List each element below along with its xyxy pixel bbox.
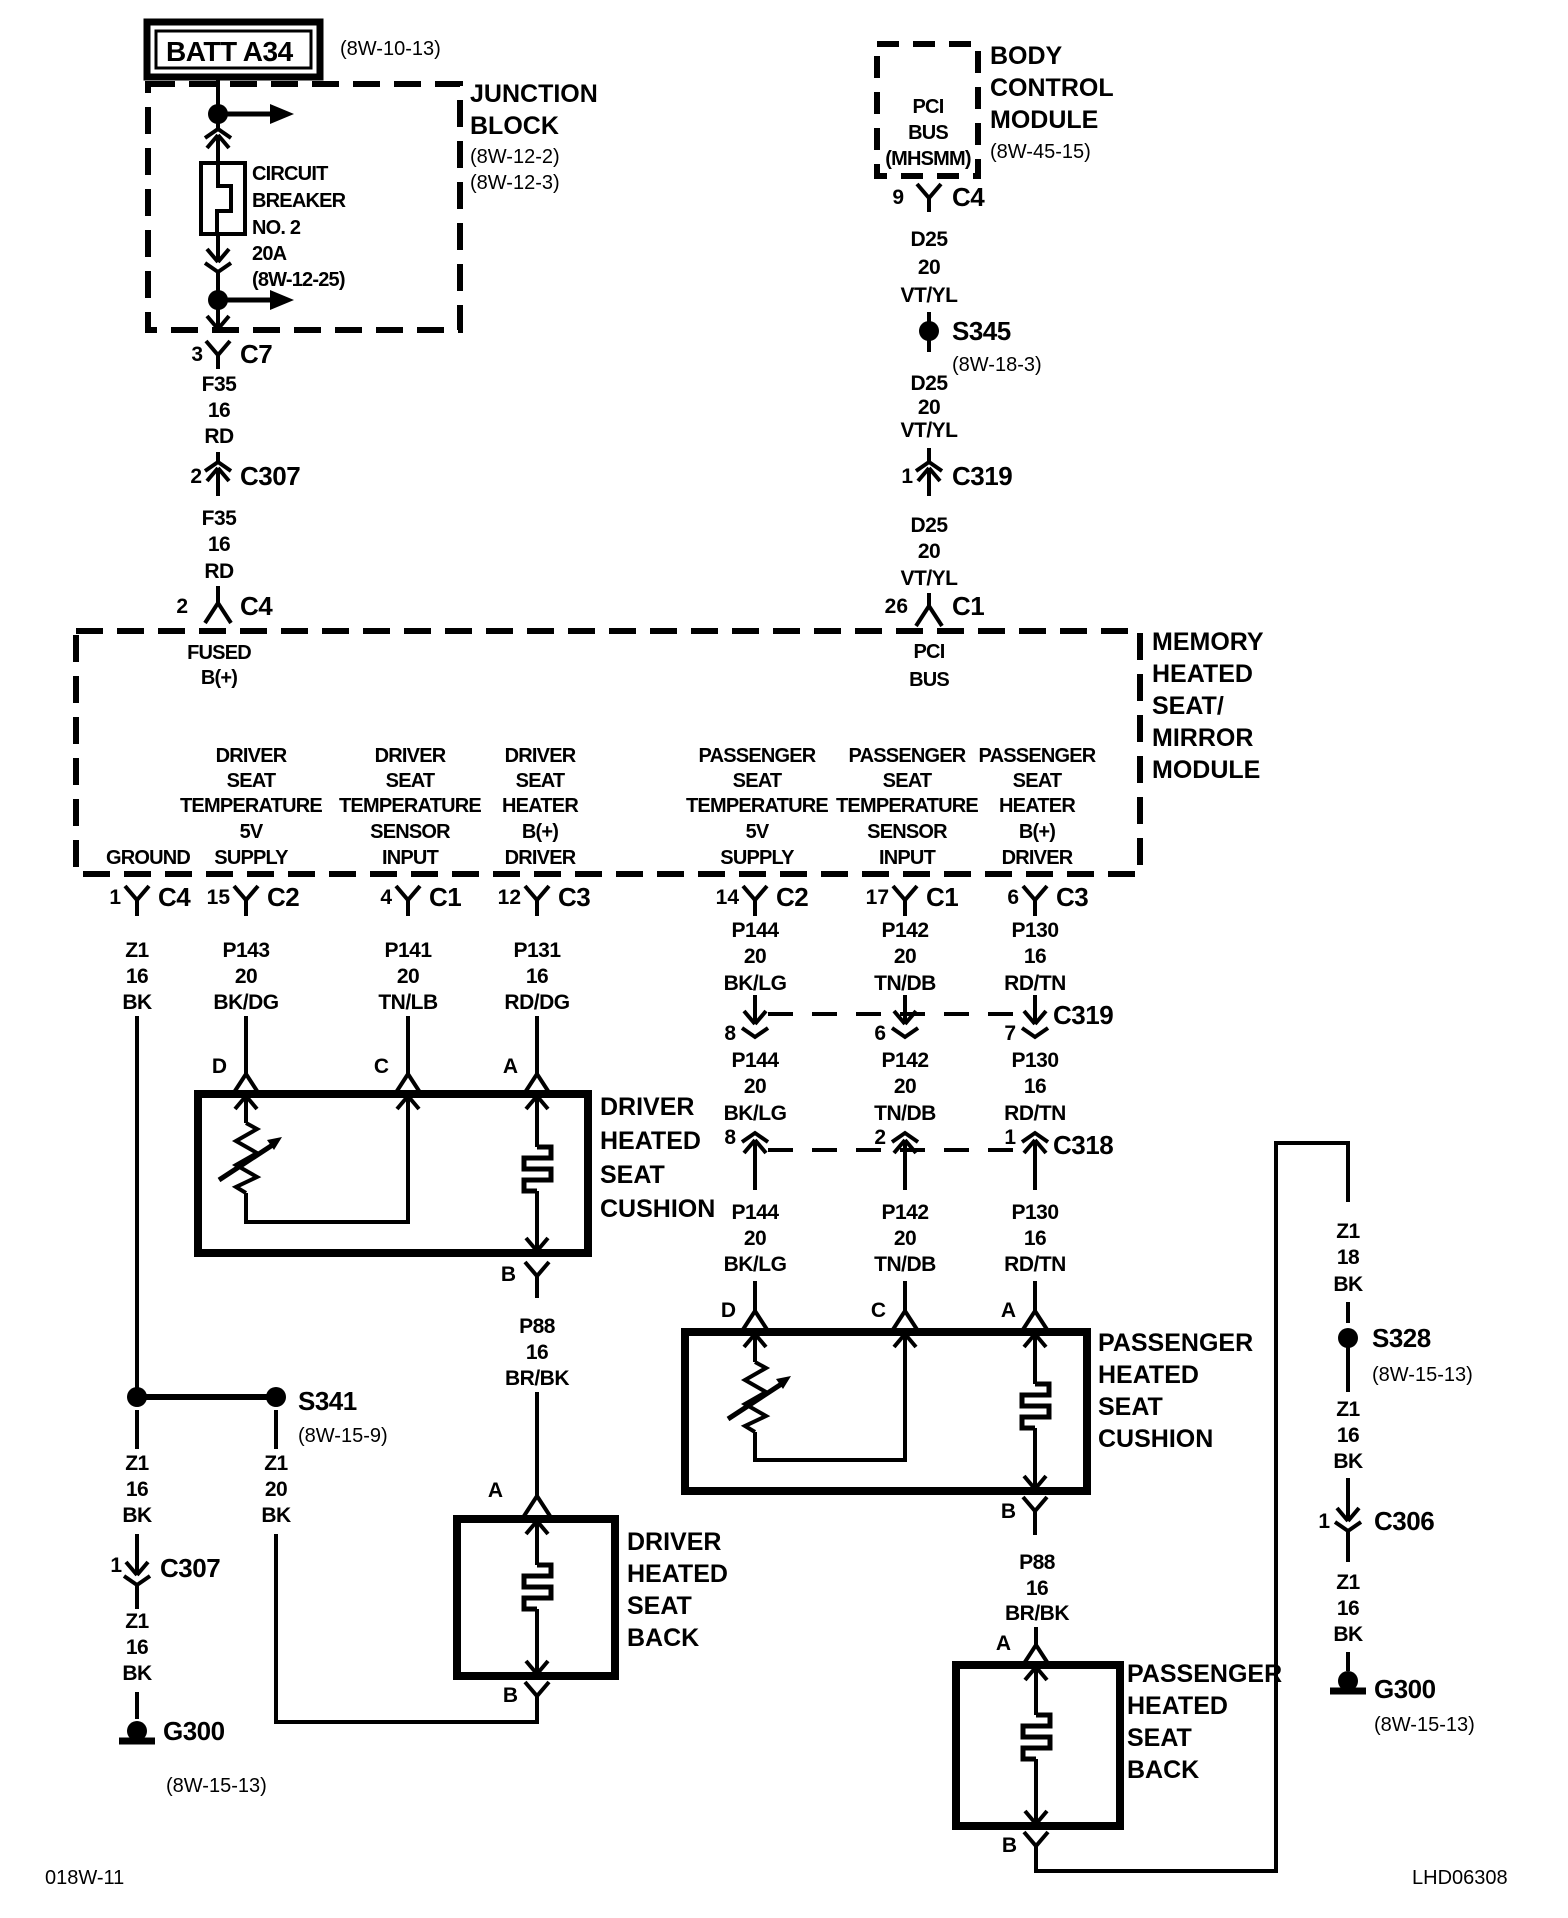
wire P142 20 TN/DB (1) <box>874 919 936 995</box>
svg-text:HEATED: HEATED <box>1152 660 1253 688</box>
svg-text:20: 20 <box>744 1075 766 1098</box>
svg-text:C1: C1 <box>429 882 461 912</box>
cushion pin C socket <box>395 1056 421 1094</box>
svg-text:2: 2 <box>190 465 202 488</box>
wire Z1 18 BK (right) <box>1333 1220 1363 1296</box>
passenger heated seat cushion label <box>1098 1329 1253 1453</box>
svg-text:S345: S345 <box>952 316 1011 346</box>
svg-text:Z1: Z1 <box>125 1610 149 1633</box>
wire to C307 <box>216 452 220 462</box>
wire to module C4 <box>216 586 220 603</box>
svg-text:20: 20 <box>744 1227 766 1250</box>
svg-text:C1: C1 <box>926 882 958 912</box>
connector C4 socket at BCM (pin 9) <box>917 184 941 212</box>
svg-text:F35: F35 <box>202 373 238 396</box>
splice S328 <box>1338 1328 1358 1348</box>
svg-text:B(+): B(+) <box>522 821 558 843</box>
svg-text:Z1: Z1 <box>1336 1571 1360 1594</box>
svg-text:CUSHION: CUSHION <box>600 1195 715 1223</box>
svg-text:DRIVER: DRIVER <box>1002 847 1074 869</box>
junction block box <box>148 84 460 330</box>
svg-text:C7: C7 <box>240 339 272 369</box>
connector C319 pin 7 chevrons <box>1022 1011 1048 1037</box>
svg-text:P88: P88 <box>1019 1551 1056 1574</box>
cushion pin A socket <box>524 1056 550 1094</box>
svg-text:SEAT: SEAT <box>1013 770 1062 792</box>
svg-text:BK/LG: BK/LG <box>724 972 787 995</box>
passenger back pin B socket <box>1024 1832 1048 1858</box>
svg-text:20A: 20A <box>252 243 287 265</box>
wire to module C1 <box>927 593 931 606</box>
memory heated seat/mirror module box <box>76 631 1140 874</box>
svg-text:15: 15 <box>207 886 231 909</box>
male pin A inside passenger back <box>1025 1667 1047 1680</box>
svg-text:1: 1 <box>901 465 913 488</box>
svg-text:2: 2 <box>874 1126 886 1149</box>
wire Z1 20 BK (S341 branch) <box>261 1452 291 1527</box>
svg-text:RD: RD <box>204 425 234 448</box>
male pin A inside cushion <box>526 1096 548 1109</box>
svg-text:C319: C319 <box>952 461 1012 491</box>
feed arrow right (bottom) <box>226 290 294 310</box>
svg-text:9: 9 <box>892 186 904 209</box>
wire pin D to passenger thermistor <box>753 1334 757 1362</box>
breaker lower terminal chevrons <box>205 234 231 296</box>
svg-text:TEMPERATURE: TEMPERATURE <box>339 795 481 817</box>
wire D25 20 VT/YL (upper) <box>900 228 958 307</box>
svg-text:16: 16 <box>526 965 548 988</box>
connector C319 pin 8 chevrons <box>742 1011 768 1037</box>
driver seat back pin A socket <box>524 1478 550 1516</box>
wire to S345 <box>927 312 931 322</box>
svg-text:SEAT: SEAT <box>1127 1724 1192 1752</box>
svg-text:P130: P130 <box>1011 1049 1058 1072</box>
passenger cushion pin D socket <box>742 1293 768 1331</box>
svg-text:16: 16 <box>208 399 230 422</box>
wire junction to S341 <box>146 1394 267 1400</box>
svg-text:BK: BK <box>1333 1623 1363 1646</box>
driver cushion heater element <box>524 1147 551 1191</box>
svg-text:(MHSMM): (MHSMM) <box>885 148 971 170</box>
junction dot J1 <box>208 104 228 124</box>
svg-text:16: 16 <box>1024 1227 1046 1250</box>
wire back heater to pin B <box>535 1609 539 1673</box>
svg-text:S328: S328 <box>1372 1323 1431 1353</box>
svg-text:MODULE: MODULE <box>990 106 1098 134</box>
wire D25 20 VT/YL (middle) <box>900 372 958 442</box>
svg-text:HEATED: HEATED <box>1127 1692 1228 1720</box>
circuit breaker CB2 box <box>201 163 245 234</box>
svg-text:PASSENGER: PASSENGER <box>1098 1329 1253 1357</box>
svg-text:FUSED: FUSED <box>187 642 251 664</box>
svg-text:TN/DB: TN/DB <box>874 1253 936 1276</box>
wire pin A to heater element <box>535 1096 539 1147</box>
svg-text:BK/LG: BK/LG <box>724 1102 787 1125</box>
svg-text:P144: P144 <box>731 1049 779 1072</box>
svg-text:1: 1 <box>109 886 121 909</box>
svg-text:A: A <box>488 1479 503 1502</box>
wire to C307 ground <box>135 1534 139 1550</box>
svg-text:16: 16 <box>1024 1075 1046 1098</box>
splice S341 <box>266 1387 286 1407</box>
svg-text:BACK: BACK <box>627 1624 699 1652</box>
svg-text:(8W-18-3): (8W-18-3) <box>952 354 1042 376</box>
svg-text:C3: C3 <box>1056 882 1088 912</box>
body control module label <box>990 42 1114 163</box>
wire passenger back heater to pin B <box>1034 1759 1038 1823</box>
svg-text:5V: 5V <box>240 821 264 843</box>
svg-text:C: C <box>374 1055 389 1078</box>
svg-text:SENSOR: SENSOR <box>370 821 451 843</box>
passenger back pin A socket <box>1023 1627 1049 1665</box>
svg-text:RD/TN: RD/TN <box>1004 1253 1066 1276</box>
passenger cushion pin A socket <box>1022 1293 1048 1331</box>
svg-text:B: B <box>1002 1834 1017 1857</box>
wire passenger back B to right riser <box>1036 1143 1348 1871</box>
ground G300 (left) <box>119 1721 155 1741</box>
svg-text:SENSOR: SENSOR <box>867 821 948 843</box>
svg-text:16: 16 <box>1337 1597 1359 1620</box>
svg-text:C3: C3 <box>558 882 590 912</box>
svg-text:1: 1 <box>1004 1126 1016 1149</box>
svg-text:16: 16 <box>526 1341 548 1364</box>
svg-text:16: 16 <box>126 1478 148 1501</box>
svg-text:JUNCTION: JUNCTION <box>470 80 598 108</box>
svg-text:P142: P142 <box>881 919 928 942</box>
svg-text:C319: C319 <box>1053 1000 1113 1030</box>
wire pin A to passenger back heater <box>1034 1667 1038 1715</box>
svg-text:1: 1 <box>1318 1510 1330 1533</box>
male pin B inside passenger back <box>1025 1811 1047 1824</box>
svg-text:2: 2 <box>176 595 188 618</box>
wire into right G300 <box>1346 1652 1350 1671</box>
driver back pin B socket <box>525 1682 549 1724</box>
svg-text:INPUT: INPUT <box>382 847 439 869</box>
svg-text:BK: BK <box>122 1504 152 1527</box>
svg-text:A: A <box>1001 1299 1016 1322</box>
svg-text:C2: C2 <box>267 882 299 912</box>
connector C307 (feed) <box>205 462 231 496</box>
svg-text:HEATER: HEATER <box>999 795 1076 817</box>
svg-text:P141: P141 <box>384 939 432 962</box>
connector C319 pin 6 chevrons <box>892 1011 918 1037</box>
svg-text:16: 16 <box>1337 1424 1359 1447</box>
svg-text:MODULE: MODULE <box>1152 756 1260 784</box>
svg-text:Z1: Z1 <box>125 1452 149 1475</box>
svg-text:DRIVER: DRIVER <box>505 847 577 869</box>
svg-text:PASSENGER: PASSENGER <box>1127 1660 1282 1688</box>
circuit breaker CB2 element <box>217 163 231 234</box>
module pin label HEATER column x=540 <box>502 745 579 869</box>
svg-text:RD/TN: RD/TN <box>1004 972 1066 995</box>
svg-text:16: 16 <box>208 533 230 556</box>
svg-text:(8W-12-3): (8W-12-3) <box>470 172 560 194</box>
svg-text:LHD06308: LHD06308 <box>1412 1867 1508 1889</box>
svg-text:HEATER: HEATER <box>502 795 579 817</box>
male pin B inside cushion <box>526 1238 548 1251</box>
module name label <box>1152 628 1264 784</box>
svg-text:Z1: Z1 <box>1336 1220 1360 1243</box>
svg-text:G300: G300 <box>163 1716 225 1746</box>
male pin A inside driver back <box>526 1521 548 1534</box>
svg-text:D: D <box>721 1299 736 1322</box>
module pin label TEMPERATURE column x=251 <box>180 745 322 869</box>
module pin 6 connector C3 socket <box>1023 886 1047 916</box>
svg-text:4: 4 <box>380 886 392 909</box>
svg-text:(8W-15-13): (8W-15-13) <box>1372 1364 1473 1386</box>
dashed link line C318 <box>768 1148 1022 1152</box>
svg-text:3: 3 <box>191 343 203 366</box>
svg-text:(8W-12-2): (8W-12-2) <box>470 146 560 168</box>
wire breaker to J2 <box>216 276 220 291</box>
wire pin A to passenger cushion heater <box>1033 1334 1037 1384</box>
svg-text:A: A <box>996 1632 1011 1655</box>
svg-text:SUPPLY: SUPPLY <box>720 847 795 869</box>
module pin 14 connector C2 socket <box>743 886 767 916</box>
svg-text:C4: C4 <box>158 882 191 912</box>
svg-text:BREAKER: BREAKER <box>252 190 347 212</box>
driver back heater element <box>524 1565 551 1609</box>
svg-text:PCI: PCI <box>914 641 945 663</box>
svg-text:5V: 5V <box>746 821 770 843</box>
svg-text:CUSHION: CUSHION <box>1098 1425 1213 1453</box>
svg-text:INPUT: INPUT <box>879 847 936 869</box>
svg-text:SEAT: SEAT <box>733 770 782 792</box>
svg-text:TN/DB: TN/DB <box>874 972 936 995</box>
connector C318 pin 1 chevrons <box>1022 1133 1048 1190</box>
svg-text:GROUND: GROUND <box>106 847 190 869</box>
wire F35 16 RD (upper) <box>202 373 238 448</box>
wire Z1 16 BK (right, to C306) <box>1333 1398 1363 1473</box>
driver heated seat back label <box>627 1528 728 1652</box>
svg-text:P144: P144 <box>731 1201 779 1224</box>
svg-text:(8W-15-13): (8W-15-13) <box>166 1775 267 1797</box>
svg-text:BK/DG: BK/DG <box>213 991 278 1014</box>
svg-text:20: 20 <box>265 1478 287 1501</box>
wire Z1 16 BK (ground from module) <box>122 939 152 1014</box>
svg-text:20: 20 <box>397 965 419 988</box>
wire D25 20 VT/YL (lower) <box>900 514 958 590</box>
driver heated seat back box <box>457 1519 615 1676</box>
feed arrow right (top) <box>226 104 294 124</box>
svg-text:RD: RD <box>204 560 234 583</box>
svg-text:7: 7 <box>1004 1022 1016 1045</box>
svg-text:S341: S341 <box>298 1386 357 1416</box>
svg-text:18: 18 <box>1337 1246 1360 1269</box>
svg-text:B: B <box>503 1684 518 1707</box>
wire J2 to junction block border <box>216 309 220 328</box>
svg-text:C: C <box>871 1299 886 1322</box>
svg-text:16: 16 <box>126 1636 148 1659</box>
svg-text:VT/YL: VT/YL <box>900 419 958 442</box>
wire passenger thermistor loop to pin C <box>755 1335 905 1460</box>
wire P131 to cushion pin A <box>535 1016 539 1058</box>
svg-text:16: 16 <box>126 965 148 988</box>
svg-text:P143: P143 <box>222 939 269 962</box>
svg-text:D25: D25 <box>910 514 948 537</box>
passenger cushion heater element <box>1022 1384 1049 1428</box>
svg-text:HEATED: HEATED <box>600 1127 701 1155</box>
svg-text:C1: C1 <box>952 591 984 621</box>
svg-text:(8W-12-25): (8W-12-25) <box>252 269 345 291</box>
svg-text:17: 17 <box>866 886 889 909</box>
svg-text:BK: BK <box>1333 1450 1363 1473</box>
svg-text:(8W-10-13): (8W-10-13) <box>340 38 441 60</box>
svg-text:D25: D25 <box>910 372 948 395</box>
connector C306 <box>1335 1493 1361 1555</box>
svg-text:NO. 2: NO. 2 <box>252 217 301 239</box>
wire P130 16 RD/TN (2) <box>1004 1049 1066 1125</box>
cushion pin B socket <box>525 1262 549 1298</box>
wire S341 branch to driver seat back B <box>276 1534 535 1722</box>
svg-text:8: 8 <box>724 1126 736 1149</box>
passenger cushion pin B socket <box>1023 1497 1047 1535</box>
svg-text:16: 16 <box>1026 1577 1048 1600</box>
svg-text:BUS: BUS <box>909 669 949 691</box>
svg-text:SEAT: SEAT <box>600 1161 665 1189</box>
svg-text:D25: D25 <box>910 228 948 251</box>
svg-text:(8W-15-13): (8W-15-13) <box>1374 1714 1475 1736</box>
svg-text:6: 6 <box>874 1022 886 1045</box>
wire passenger cushion heater to pin B <box>1033 1428 1037 1488</box>
wire pin A to back heater <box>535 1521 539 1565</box>
junction dot at S341 tie <box>127 1387 147 1407</box>
svg-text:B(+): B(+) <box>201 667 237 689</box>
svg-text:P144: P144 <box>731 919 779 942</box>
module pin 12 connector C3 socket <box>525 886 549 916</box>
svg-text:6: 6 <box>1007 886 1019 909</box>
svg-text:1: 1 <box>110 1554 122 1577</box>
wire P142 20 TN/DB (2) <box>874 1049 936 1125</box>
svg-text:SEAT: SEAT <box>1098 1393 1163 1421</box>
svg-text:(8W-15-9): (8W-15-9) <box>298 1425 388 1447</box>
svg-text:20: 20 <box>235 965 257 988</box>
wire to C319 (PCI) <box>927 448 931 462</box>
svg-text:Z1: Z1 <box>264 1452 288 1475</box>
wire P130 16 RD/TN (1) <box>1004 919 1066 995</box>
wire P144 20 BK/LG (1) <box>724 919 787 995</box>
svg-text:SEAT: SEAT <box>883 770 932 792</box>
male pin C inside passenger cushion <box>894 1334 916 1347</box>
svg-text:C4: C4 <box>240 591 273 621</box>
wire thermistor loop to pin C <box>246 1097 408 1222</box>
wire S345 down <box>927 340 931 352</box>
wire P144 20 BK/LG (3) <box>724 1201 787 1276</box>
svg-text:DRIVER: DRIVER <box>505 745 577 767</box>
svg-text:TEMPERATURE: TEMPERATURE <box>180 795 322 817</box>
wire P141 20 TN/LB <box>378 939 438 1014</box>
wire Z1 16 BK (right, to G300) <box>1333 1571 1363 1646</box>
svg-text:P130: P130 <box>1011 919 1058 942</box>
driver seat temperature sensor (thermistor) <box>219 1123 282 1193</box>
male pin A inside passenger cushion <box>1024 1334 1046 1347</box>
male pin at junction block exit <box>207 316 229 329</box>
battery feed box BATT A34 <box>147 22 320 77</box>
male pin C inside cushion <box>397 1096 419 1109</box>
svg-text:BUS: BUS <box>908 122 948 144</box>
svg-text:VT/YL: VT/YL <box>900 567 958 590</box>
svg-text:BATT A34: BATT A34 <box>166 36 294 67</box>
svg-text:TEMPERATURE: TEMPERATURE <box>686 795 828 817</box>
svg-text:G300: G300 <box>1374 1674 1436 1704</box>
wire F35 16 RD (lower) <box>202 507 238 583</box>
svg-text:B(+): B(+) <box>1019 821 1055 843</box>
svg-text:BK: BK <box>1333 1273 1363 1296</box>
svg-text:BK: BK <box>122 991 152 1014</box>
connector C319 (PCI bus) <box>916 462 942 496</box>
wire battery feed into junction block <box>216 77 220 105</box>
svg-text:DRIVER: DRIVER <box>627 1528 721 1556</box>
male pin D inside passenger cushion <box>744 1334 766 1347</box>
driver heated seat cushion box <box>198 1094 588 1253</box>
PCI BUS (MHSMM) label <box>885 96 971 170</box>
module pin 4 connector C1 socket <box>396 886 420 916</box>
svg-text:C318: C318 <box>1053 1130 1113 1160</box>
svg-text:26: 26 <box>885 595 908 618</box>
male pin D inside cushion <box>235 1096 257 1109</box>
svg-text:C2: C2 <box>776 882 808 912</box>
svg-text:Z1: Z1 <box>125 939 149 962</box>
svg-text:TN/DB: TN/DB <box>874 1102 936 1125</box>
wire to C319 pin 7 <box>1033 995 1037 1024</box>
wire P88 16 BR/BK (passenger) <box>1005 1551 1069 1625</box>
splice S345 <box>919 321 939 341</box>
passenger seat temperature sensor (thermistor) <box>728 1362 791 1432</box>
passenger heated seat back box <box>956 1665 1120 1826</box>
svg-text:P88: P88 <box>519 1315 556 1338</box>
module pin label PCI BUS <box>909 641 949 691</box>
module pin label FUSED B(+) <box>187 642 251 689</box>
svg-text:P131: P131 <box>513 939 561 962</box>
svg-text:HEATED: HEATED <box>1098 1361 1199 1389</box>
breaker upper terminal chevrons <box>205 129 231 163</box>
passenger heated seat cushion box <box>685 1332 1087 1491</box>
ground G300 (right) <box>1330 1671 1366 1691</box>
svg-text:20: 20 <box>894 1075 916 1098</box>
male pin B inside passenger cushion <box>1024 1476 1046 1489</box>
svg-text:Z1: Z1 <box>1336 1398 1360 1421</box>
wire P130 16 RD/TN (3) <box>1004 1201 1066 1276</box>
svg-text:C4: C4 <box>952 182 985 212</box>
svg-text:SEAT/: SEAT/ <box>1152 692 1224 720</box>
connector C7 socket <box>206 341 230 369</box>
wire Z1 16 BK (left, to C307) <box>122 1452 152 1527</box>
svg-text:12: 12 <box>498 886 521 909</box>
wire P141 to cushion pin C <box>406 1016 410 1058</box>
svg-text:SEAT: SEAT <box>516 770 565 792</box>
svg-text:HEATED: HEATED <box>627 1560 728 1588</box>
svg-text:C306: C306 <box>1374 1506 1434 1536</box>
wire P130 to passenger cushion pin A <box>1033 1281 1037 1294</box>
wire P143 to cushion pin D <box>244 1016 248 1058</box>
module pin 17 connector C1 socket <box>893 886 917 916</box>
wire P88 to passenger back pin A <box>1034 1628 1038 1629</box>
cushion pin D socket <box>233 1056 259 1094</box>
svg-text:MIRROR: MIRROR <box>1152 724 1253 752</box>
svg-text:DRIVER: DRIVER <box>216 745 288 767</box>
wire P131 16 RD/DG <box>504 939 569 1014</box>
svg-text:SEAT: SEAT <box>227 770 276 792</box>
svg-text:20: 20 <box>918 256 940 279</box>
wire to C319 pin 6 <box>903 995 907 1024</box>
module pin label TEMPERATURE column x=757 <box>686 745 828 869</box>
wire P88 16 BR/BK (driver) <box>505 1315 569 1390</box>
svg-text:BACK: BACK <box>1127 1756 1199 1784</box>
dashed link line C319 <box>768 1012 1022 1016</box>
wire to S328 <box>1346 1302 1350 1323</box>
svg-text:A: A <box>503 1055 518 1078</box>
wire Z1 module ground down <box>135 1016 139 1388</box>
